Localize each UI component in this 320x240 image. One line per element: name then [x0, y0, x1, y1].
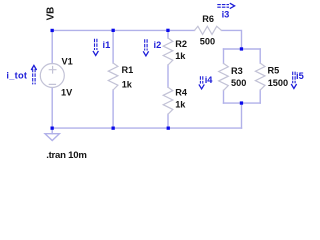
- svg-text:i2: i2: [154, 40, 162, 50]
- svg-text:i1: i1: [103, 40, 111, 50]
- svg-text:R3: R3: [231, 66, 243, 76]
- svg-text:R6: R6: [202, 14, 214, 24]
- svg-text:R1: R1: [122, 65, 134, 75]
- svg-text:500: 500: [231, 78, 246, 88]
- svg-text:i5: i5: [296, 71, 304, 81]
- svg-text:R4: R4: [175, 88, 188, 98]
- svg-text:i_tot: i_tot: [6, 70, 27, 80]
- svg-text:R5: R5: [268, 66, 280, 76]
- svg-text:V1: V1: [62, 56, 73, 66]
- svg-text:R2: R2: [175, 39, 187, 49]
- svg-text:i3: i3: [222, 9, 230, 19]
- svg-text:1V: 1V: [61, 88, 73, 98]
- svg-text:.tran 10m: .tran 10m: [46, 150, 86, 161]
- svg-text:1500: 1500: [268, 78, 288, 88]
- svg-text:1k: 1k: [175, 100, 186, 110]
- svg-text:1k: 1k: [175, 51, 186, 61]
- svg-text:VB: VB: [46, 7, 57, 21]
- svg-text:500: 500: [200, 37, 215, 47]
- svg-text:1k: 1k: [122, 79, 133, 89]
- svg-text:i4: i4: [205, 75, 214, 85]
